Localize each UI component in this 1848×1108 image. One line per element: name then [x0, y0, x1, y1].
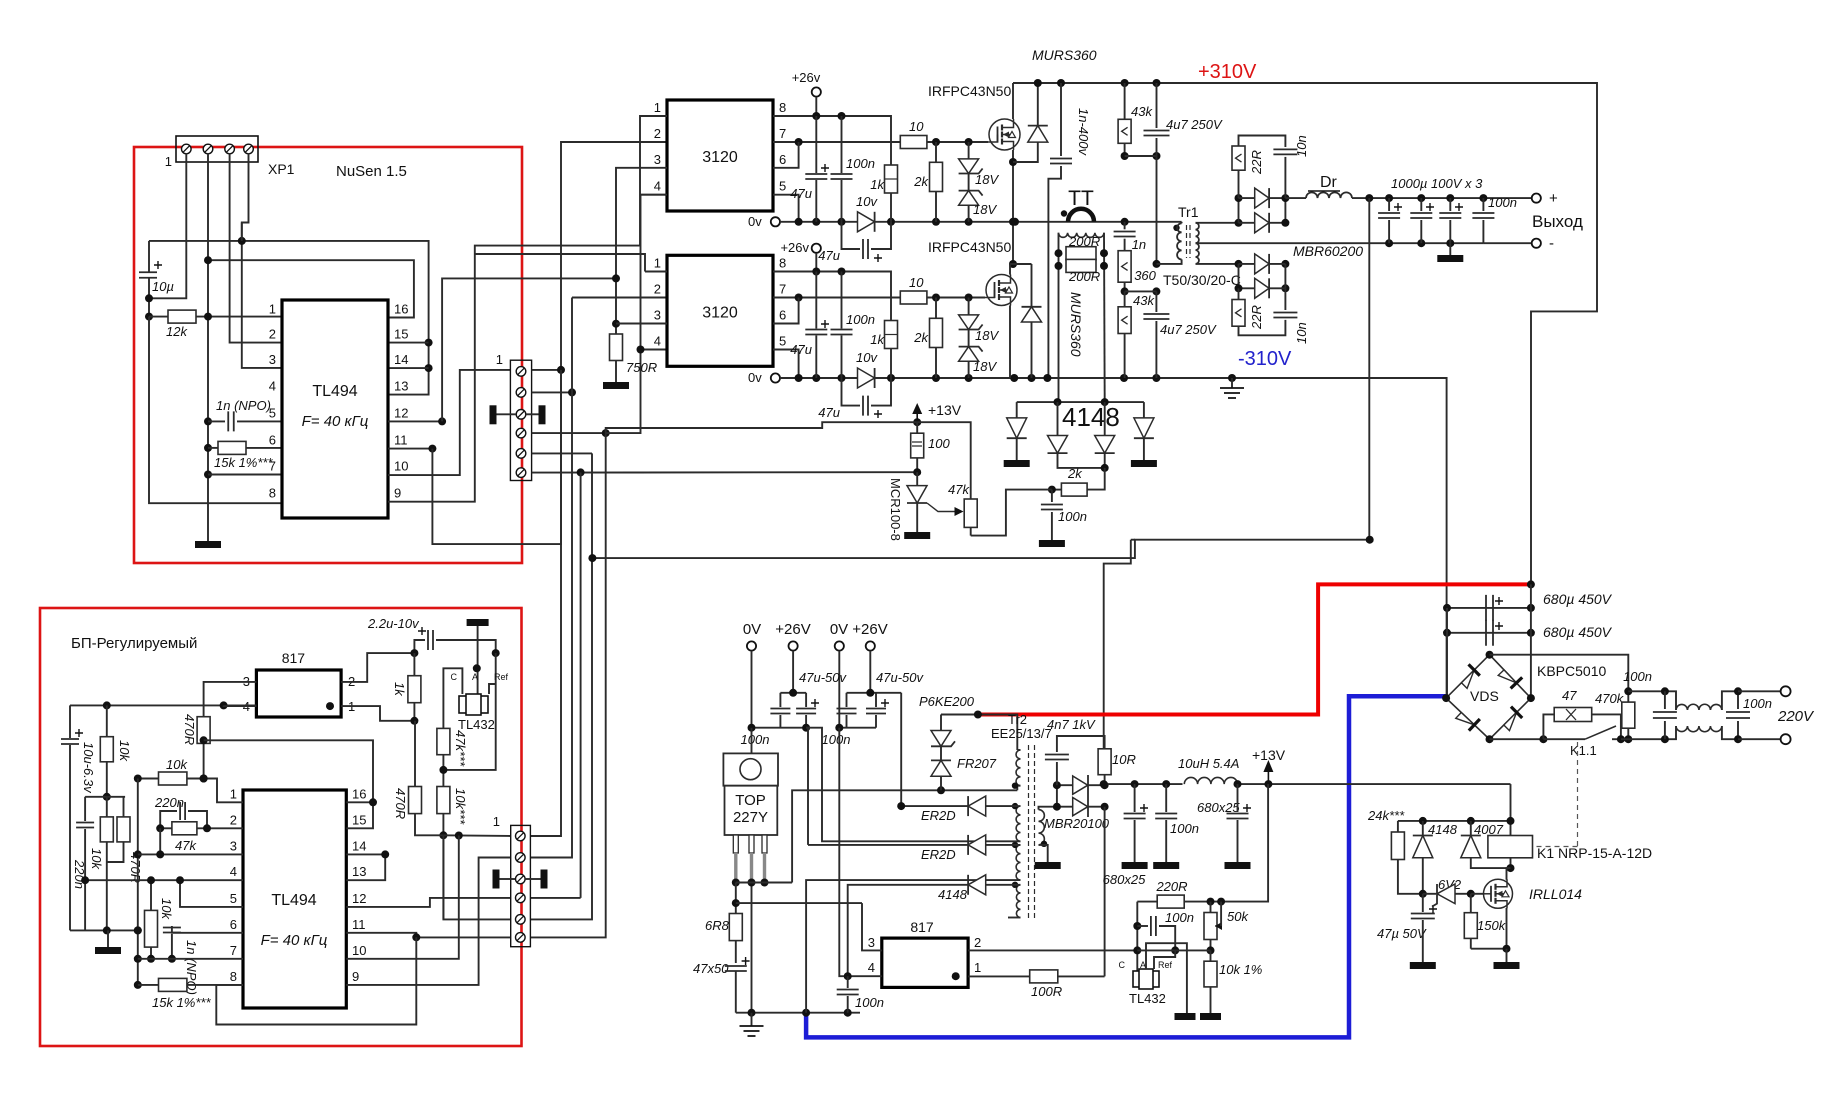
transformer Tr2 winding4 — [1016, 885, 1020, 918]
svg-text:MCR100-8: MCR100-8 — [888, 478, 903, 541]
diode clamp outer right — [1143, 402, 1145, 418]
svg-text:22R: 22R — [1249, 150, 1264, 175]
capacitor 4u7 250V lower — [1155, 291, 1157, 312]
wire w4 bottom stub — [1008, 917, 1021, 919]
wire Tr1 center tap — [1196, 242, 1484, 244]
svg-text:11: 11 — [352, 917, 366, 932]
bus wire C — [580, 472, 582, 898]
polarity bar left X2 — [493, 870, 500, 889]
svg-text:47u: 47u — [790, 186, 812, 201]
ground TL432b — [1175, 1013, 1196, 1020]
wire XP1-1 to C1 node — [149, 154, 186, 299]
wire pin9 to block2 screw2 — [346, 858, 510, 985]
svg-text:2: 2 — [974, 935, 981, 950]
svg-text:18V: 18V — [975, 328, 999, 343]
wire relay row — [1510, 784, 1512, 868]
junction ground/pin1 — [204, 313, 212, 321]
svg-text:43k: 43k — [1133, 293, 1155, 308]
svg-text:4u7 250V: 4u7 250V — [1166, 117, 1223, 132]
wire red +310 thick — [978, 584, 1531, 714]
svg-text:15k 1%***: 15k 1%*** — [152, 995, 211, 1010]
svg-text:5: 5 — [779, 334, 786, 349]
wire C1- to TL494 pin8 row — [149, 317, 282, 504]
wire 3120-1 pin7 — [773, 141, 900, 143]
mains rail lower — [1621, 726, 1676, 739]
ground earth primary — [751, 1013, 753, 1026]
wire +13V to 47k top — [917, 422, 971, 499]
svg-text:10: 10 — [352, 943, 366, 958]
wire clamp row — [1017, 401, 1144, 403]
ground rail lower box — [70, 929, 138, 931]
IC U6 TOP227Y — [723, 753, 778, 785]
capacitor C1 10µ — [148, 241, 150, 272]
resistor 750R — [616, 168, 667, 334]
svg-text:8: 8 — [779, 256, 786, 271]
phase dot w4 — [1012, 882, 1018, 888]
ground output — [1449, 243, 1451, 255]
wire MBR out down — [1104, 807, 1106, 977]
svg-text:3: 3 — [269, 352, 276, 367]
svg-text:F= 40 кГц: F= 40 кГц — [261, 932, 328, 949]
transformer Tr1 secondary B — [1196, 243, 1199, 264]
svg-text:-310V: -310V — [1238, 348, 1292, 370]
svg-text:47x50: 47x50 — [693, 961, 729, 976]
inductor Dr — [1285, 197, 1306, 199]
svg-text:16: 16 — [394, 302, 408, 317]
svg-text:K1 NRP-15-A-12D: K1 NRP-15-A-12D — [1537, 845, 1652, 861]
svg-text:470R: 470R — [393, 788, 408, 819]
svg-text:100R: 100R — [1031, 984, 1062, 999]
svg-text:10uH 5.4A: 10uH 5.4A — [1178, 756, 1239, 771]
wire 3120-2 pin7 — [773, 297, 900, 299]
wire bridge bottom to K1.1 — [1490, 738, 1544, 740]
resistor 10 lower — [900, 291, 927, 304]
svg-text:0v: 0v — [748, 214, 762, 229]
svg-text:470R: 470R — [182, 714, 197, 745]
wire 3120-1 pin5 — [773, 195, 799, 222]
svg-text:2: 2 — [654, 126, 661, 141]
wire 0V a down to primary gnd — [751, 728, 753, 1013]
svg-text:100n: 100n — [1488, 195, 1517, 210]
wire pin12 to block2 screw4 — [346, 898, 510, 907]
svg-text:IRLL014: IRLL014 — [1529, 886, 1582, 902]
terminal block X2 — [511, 825, 531, 946]
wire +26Vb rail to ER2D1 — [900, 693, 902, 806]
wire X1-4 right to +13V sense — [532, 432, 606, 434]
svg-text:14: 14 — [394, 352, 408, 367]
group1 rails — [780, 692, 806, 694]
wire 3120-1 pin4 stub — [641, 194, 668, 196]
wire 0v rail upper / TT primary line — [780, 221, 1182, 223]
svg-text:13: 13 — [394, 379, 408, 394]
svg-text:2: 2 — [269, 327, 276, 342]
svg-text:817: 817 — [282, 650, 306, 666]
svg-text:4148: 4148 — [1062, 402, 1120, 432]
wire pins 13-14 tie — [346, 854, 385, 880]
svg-text:47k: 47k — [948, 482, 970, 497]
wire pin11 to block2 screw6 — [346, 933, 510, 938]
svg-text:F= 40 кГц: F= 40 кГц — [302, 413, 369, 430]
svg-text:47u: 47u — [790, 342, 812, 357]
svg-text:KBPC5010: KBPC5010 — [1537, 663, 1606, 679]
bus wire C to block2 — [530, 897, 580, 899]
resistor 100 — [916, 422, 918, 433]
wire divider chain to block2 screw5 — [443, 835, 510, 919]
wire TL494 pin14 — [388, 367, 429, 369]
svg-text:MURS360: MURS360 — [1068, 292, 1084, 357]
wire caps left leg — [1446, 608, 1448, 698]
wire Q3 drain — [1507, 868, 1511, 880]
svg-text:5: 5 — [230, 891, 237, 906]
svg-text:12k: 12k — [166, 324, 188, 339]
phase dot w3 — [1012, 842, 1018, 848]
wire feed to 10R — [1369, 539, 1371, 541]
svg-text:XP1: XP1 — [268, 161, 295, 177]
primary ground rail — [736, 1012, 860, 1014]
IC U7 817 opto b — [882, 938, 968, 987]
transformer TT primary hump — [1068, 209, 1094, 222]
resistor 47k*** — [437, 728, 450, 754]
wire TOP legs tie — [736, 882, 792, 884]
svg-text:7: 7 — [779, 126, 786, 141]
opto dot U7 — [952, 972, 960, 980]
capacitor 47u lower — [815, 272, 817, 329]
wire top rail to 817 pin4 — [70, 704, 256, 706]
wire divider to block2 screw1 — [443, 834, 510, 837]
svg-text:3: 3 — [654, 152, 661, 167]
wire Q1 drain — [1012, 83, 1014, 119]
svg-text:47u: 47u — [818, 248, 840, 263]
svg-text:9: 9 — [352, 969, 359, 984]
svg-text:IRFPC43N50: IRFPC43N50 — [928, 239, 1011, 255]
svg-text:6: 6 — [779, 308, 786, 323]
zener 18V lower pair — [968, 298, 970, 315]
svg-text:220V: 220V — [1777, 708, 1815, 725]
wire 3120-1 pin6 — [773, 142, 799, 168]
transformer Tr2 winding2 — [1016, 806, 1020, 841]
wire TL432b anode — [1146, 943, 1187, 1013]
wire gnd to pin7 — [208, 474, 282, 476]
transformer Tr2 winding3 — [1016, 845, 1020, 880]
capacitor 100n 13V — [1165, 784, 1167, 812]
svg-text:8: 8 — [269, 486, 276, 501]
svg-text:10n: 10n — [1294, 135, 1309, 157]
svg-text:47k: 47k — [175, 838, 197, 853]
wire blue -310 thick — [806, 696, 1447, 1037]
svg-text:T50/30/20-C: T50/30/20-C — [1163, 272, 1241, 288]
svg-text:4: 4 — [654, 179, 661, 194]
wire w2 bottom — [806, 728, 1020, 842]
IC U2 3120 — [667, 100, 773, 211]
resistor 10k b — [100, 817, 113, 842]
wire Dr node to 10R feed — [1368, 198, 1370, 540]
capacitor 680u b — [1447, 632, 1531, 634]
svg-text:10k: 10k — [89, 848, 104, 870]
capacitor 680x25 a — [1134, 784, 1136, 812]
wire Q3 source — [1471, 908, 1507, 949]
transformer TT secondary — [1059, 233, 1105, 238]
svg-text:MURS360: MURS360 — [1032, 47, 1097, 63]
capacitor 10n upper — [1273, 149, 1297, 154]
svg-text:C: C — [1119, 960, 1126, 970]
wire TOP drain to primary — [792, 790, 1017, 882]
+13V arrow bottom — [1267, 768, 1269, 784]
capacitor 100n clamp — [1051, 490, 1053, 502]
svg-text:TL494: TL494 — [271, 892, 316, 909]
svg-text:10µ: 10µ — [152, 279, 174, 294]
rail +13V — [1104, 783, 1511, 785]
svg-text:4: 4 — [269, 379, 276, 394]
svg-text:100: 100 — [928, 436, 950, 451]
junction ground rail A — [204, 256, 212, 264]
svg-text:Dr: Dr — [1320, 174, 1338, 191]
svg-text:TL432: TL432 — [1129, 991, 1166, 1006]
wire Q2 source stub — [1009, 306, 1011, 379]
diode MBR60200 up pair — [1238, 198, 1240, 223]
resistor 360 — [1118, 251, 1131, 283]
svg-text:4u7 250V: 4u7 250V — [1160, 322, 1217, 337]
wire bridge top to 470k — [1490, 655, 1629, 702]
svg-text:6: 6 — [230, 917, 237, 932]
svg-text:10: 10 — [909, 275, 924, 290]
ground MCR — [904, 532, 930, 539]
wire w3 bottom — [806, 880, 1020, 1013]
svg-text:8: 8 — [779, 100, 786, 115]
svg-text:47u-50v: 47u-50v — [799, 670, 847, 685]
diode clamp inner left — [1057, 402, 1059, 435]
ground 680a — [1122, 862, 1148, 869]
resistor 10k*** — [437, 787, 450, 814]
wire X1-2 right — [532, 391, 572, 393]
ground sec — [1035, 862, 1061, 869]
svg-text:200R: 200R — [1068, 269, 1100, 284]
svg-text:Выход: Выход — [1532, 212, 1583, 231]
wire 817b pin2 to TL432 — [968, 949, 1137, 951]
svg-text:K1.1: K1.1 — [1570, 743, 1597, 758]
IC U5 817 opto — [256, 670, 341, 717]
diode clamp inner right — [1104, 402, 1106, 435]
IC U4 TL494 lower — [243, 790, 346, 1008]
svg-text:2k: 2k — [913, 174, 929, 189]
svg-text:1n (NPO): 1n (NPO) — [216, 398, 271, 413]
svg-text:6R8: 6R8 — [705, 918, 730, 933]
svg-text:2k: 2k — [1067, 466, 1083, 481]
svg-text:NuSen 1.5: NuSen 1.5 — [336, 163, 407, 180]
inductor line choke lower — [1676, 726, 1722, 732]
resistor 43k upper — [1124, 83, 1126, 119]
wire 3120-1 pin8 rail — [773, 116, 891, 165]
ground G2 — [95, 947, 121, 954]
ground clamp left — [1004, 460, 1030, 467]
junction XP1-4 / pin15 net — [238, 237, 246, 245]
connector XP1 — [176, 136, 258, 162]
svg-text:P6KE200: P6KE200 — [919, 694, 975, 709]
svg-text:1: 1 — [654, 100, 661, 115]
IC U1 TL494 — [282, 300, 388, 518]
svg-text:7: 7 — [269, 459, 276, 474]
+13V arrow mid — [916, 409, 918, 421]
svg-text:100n: 100n — [1058, 509, 1087, 524]
svg-text:220n: 220n — [72, 859, 87, 889]
wire 817b pin4 — [839, 728, 882, 977]
svg-text:10k***: 10k*** — [453, 788, 468, 825]
wire X1-6 right to MCR net — [532, 471, 918, 473]
phase dot sec — [1041, 841, 1047, 847]
svg-text:150k: 150k — [1477, 918, 1507, 933]
wire clamp top to primary top — [941, 715, 1017, 751]
svg-text:+26v: +26v — [792, 70, 821, 85]
terminal output - — [1483, 242, 1531, 244]
wire 817b pin3 — [862, 903, 882, 950]
wire ER2Db to supply — [806, 728, 808, 845]
wire 817b pin1 to 100R — [968, 975, 1030, 977]
svg-text:817: 817 — [910, 919, 934, 935]
diode clamp outer left — [1016, 402, 1018, 418]
capacitor 4u7 250V upper — [1156, 83, 1158, 128]
polarity bar left X1 — [490, 405, 497, 424]
svg-text:16: 16 — [352, 786, 366, 801]
IC U3 3120 — [667, 255, 773, 366]
svg-text:0V: 0V — [743, 621, 761, 638]
wire TOP source down — [735, 883, 737, 914]
svg-text:24k***: 24k*** — [1367, 808, 1405, 823]
svg-text:47u-50v: 47u-50v — [876, 670, 924, 685]
svg-text:1: 1 — [974, 960, 981, 975]
wire Tr1 sec top — [1196, 222, 1239, 224]
svg-text:1n: 1n — [1132, 237, 1146, 252]
svg-text:4: 4 — [230, 864, 237, 879]
resistor 10k a — [100, 737, 113, 762]
wire TL432b ref — [1154, 950, 1175, 969]
svg-text:FR207: FR207 — [957, 756, 997, 771]
svg-text:10k: 10k — [166, 757, 188, 772]
svg-text:Ref: Ref — [494, 672, 509, 682]
svg-text:22R: 22R — [1249, 305, 1264, 330]
wire 3120-2 pin1 stub — [645, 271, 667, 273]
wire TL494 pin11 — [388, 448, 432, 450]
svg-text:10k: 10k — [159, 898, 174, 920]
svg-text:EE25/13/7: EE25/13/7 — [991, 726, 1052, 741]
svg-text:+310V: +310V — [1198, 61, 1257, 83]
wire 470R3 and pin3 — [204, 682, 257, 717]
capacitor 47u bootstrap lower — [842, 378, 861, 406]
phase dot Tr1 — [1173, 225, 1179, 231]
bus wire A — [530, 370, 561, 836]
wire TL432b cathode chain — [1136, 902, 1138, 972]
wire output sense to bus — [592, 540, 1369, 558]
wire X1-5 right — [532, 452, 592, 454]
wire pin3 row — [138, 853, 243, 855]
resistor 43k lower — [1124, 291, 1126, 306]
svg-text:750R: 750R — [626, 360, 657, 375]
wire 3120-2 pin6 — [773, 298, 799, 324]
resistor 10 upper — [900, 136, 927, 149]
wire TL494 pin15 — [388, 342, 429, 344]
svg-text:50k: 50k — [1227, 909, 1249, 924]
ground 100n13 — [1153, 862, 1179, 869]
svg-text:Tr1: Tr1 — [1178, 204, 1199, 220]
junction pin7 gnd — [204, 471, 212, 479]
svg-text:680µ 450V: 680µ 450V — [1543, 624, 1613, 640]
svg-text:12: 12 — [352, 891, 366, 906]
svg-text:1: 1 — [269, 302, 276, 317]
wire XP1-4 to TL494 pin3 — [242, 154, 282, 368]
svg-text:+26V: +26V — [775, 621, 810, 638]
polarity bar right X2 — [541, 870, 548, 889]
svg-text:47: 47 — [1562, 688, 1577, 703]
svg-text:Tr2: Tr2 — [1008, 712, 1027, 727]
svg-text:10: 10 — [909, 119, 924, 134]
mains rail upper — [1628, 690, 1665, 692]
wire mid node — [85, 796, 125, 798]
wire TL494 pin10 to terminal 1 — [388, 370, 510, 475]
bridge rectifier VDS KBPC5010 — [1446, 655, 1531, 740]
svg-text:+26v: +26v — [780, 240, 809, 255]
svg-text:1k: 1k — [392, 682, 407, 697]
svg-text:6: 6 — [779, 152, 786, 167]
wire 0v rail lower — [780, 378, 1447, 698]
capacitor output 1000u b — [1420, 198, 1422, 211]
svg-text:2: 2 — [654, 282, 661, 297]
svg-text:TL494: TL494 — [312, 383, 357, 400]
svg-text:ER2D: ER2D — [921, 808, 956, 823]
svg-text:5: 5 — [779, 179, 786, 194]
svg-text:100n: 100n — [855, 995, 884, 1010]
svg-text:47u: 47u — [818, 405, 840, 420]
svg-text:10k 1%: 10k 1% — [1219, 962, 1262, 977]
wire left riser — [137, 779, 139, 985]
svg-text:1000µ 100V x 3: 1000µ 100V x 3 — [1391, 176, 1483, 191]
svg-text:10v: 10v — [856, 194, 878, 209]
phase dot TT — [1061, 210, 1067, 216]
svg-text:100n: 100n — [846, 156, 875, 171]
ground 680b — [1225, 862, 1251, 869]
wire C1 top to TL494 pins 13-15 — [149, 241, 429, 395]
svg-text:9: 9 — [394, 486, 401, 501]
svg-text:+26V: +26V — [852, 621, 887, 638]
svg-text:+13V: +13V — [1252, 747, 1286, 763]
svg-text:10R: 10R — [1112, 752, 1136, 767]
bus wire E — [530, 433, 605, 937]
bus wire D — [530, 453, 592, 919]
svg-text:470k: 470k — [1595, 691, 1625, 706]
svg-text:0v: 0v — [748, 370, 762, 385]
svg-text:18V: 18V — [973, 202, 997, 217]
wire pin4 row — [85, 879, 243, 881]
svg-text:8: 8 — [230, 969, 237, 984]
wire TL494 pin12 to driver net — [388, 420, 442, 422]
wire control staircase — [736, 902, 862, 904]
winding sec right — [1039, 810, 1045, 845]
ground G1 — [195, 541, 221, 548]
wire Q1 source — [1012, 150, 1014, 264]
wire Ref chain — [443, 653, 495, 770]
capacitor 680u a — [1447, 607, 1531, 609]
diode MBR60200 down pair — [1255, 254, 1269, 274]
svg-text:IRFPC43N50: IRFPC43N50 — [928, 83, 1011, 99]
svg-text:100n: 100n — [1623, 669, 1652, 684]
svg-text:БП-Регулируемый: БП-Регулируемый — [71, 635, 197, 652]
wire pin15-16 riser — [204, 740, 373, 828]
svg-text:MBR20100: MBR20100 — [1044, 816, 1110, 831]
wire 3120-2 pin5 — [773, 350, 799, 379]
svg-text:10n: 10n — [1294, 322, 1309, 344]
svg-text:7: 7 — [230, 943, 237, 958]
ground 10k1% — [1200, 1013, 1221, 1020]
capacitor 220n a — [76, 823, 94, 828]
wire 47k wiper to 100n node — [971, 490, 1052, 536]
svg-text:5: 5 — [269, 405, 276, 420]
